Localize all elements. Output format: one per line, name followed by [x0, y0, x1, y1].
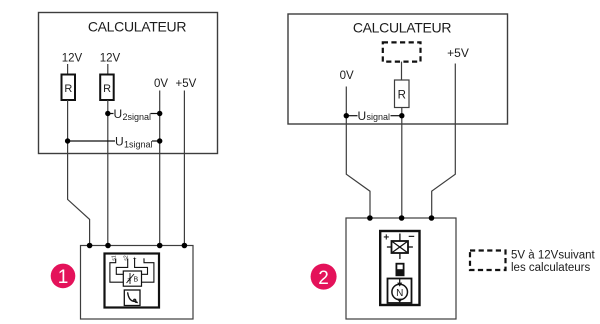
svg-text:B: B [134, 277, 139, 284]
resistor R3 [395, 80, 410, 108]
junction dot (sensor1 pin a) [87, 243, 93, 249]
wire signal down to sensor (right) [401, 108, 403, 219]
svg-text:R: R [103, 83, 111, 95]
hall sensor internal wiring (right inner staple) [135, 259, 148, 275]
svg-text:12V: 12V [62, 53, 83, 65]
magnet curve box [124, 290, 140, 306]
svg-text:+5V: +5V [176, 78, 197, 90]
pole wheel circle N [392, 284, 408, 300]
marker circle 1 [51, 264, 76, 289]
svg-text:0V: 0V [154, 78, 168, 90]
dashed supply box (inside right ECU) [383, 42, 421, 61]
svg-text:12V: 12V [100, 53, 121, 65]
node U1signal (wire, label and junction dots) [65, 134, 162, 149]
junction dot (sensor1 pin c) [157, 243, 163, 249]
svg-text:s1: s1 [112, 255, 118, 261]
svg-text:2signal: 2signal [123, 112, 152, 122]
junction dot (sensor2 pin b) [399, 215, 405, 221]
hall element box with B [123, 271, 141, 286]
resistor R2 [100, 75, 114, 101]
hall sensor internal wiring (right outer staple) [142, 259, 154, 283]
hall sensor icon frame (left) [105, 254, 160, 308]
svg-text:5V à 12Vsuivant: 5V à 12Vsuivant [511, 250, 596, 262]
svg-text:+5V: +5V [447, 46, 469, 60]
svg-text:signal: signal [367, 112, 391, 122]
svg-text:R: R [398, 90, 406, 102]
legend dashed box [470, 251, 506, 271]
svg-text:R: R [64, 83, 72, 95]
svg-text:N: N [396, 288, 403, 299]
magnet element (half filled) [396, 263, 405, 276]
node Usignal (wire, label and junction dots) [344, 109, 405, 123]
svg-text:les calculateurs: les calculateurs [511, 262, 591, 274]
wire stub above bridge [399, 234, 401, 242]
wire R1 down to sensor (with jog) [68, 100, 90, 246]
wire 0V down to sensor (left) [159, 91, 161, 246]
svg-text:U: U [114, 107, 123, 121]
wire 0V down to sensor (right, with jog) [346, 87, 370, 219]
wire stub below bridge [399, 253, 401, 259]
wire 12V to R2 [107, 64, 109, 75]
hall sensor pin labels (tiny) [112, 255, 146, 262]
junction dot (sensor2 pin c) [429, 215, 435, 221]
wire stub right of bridge [408, 246, 413, 248]
marker circle 2 [311, 264, 337, 290]
svg-text:1signal: 1signal [124, 139, 153, 149]
junction dot (sensor1 pin b) [105, 243, 111, 249]
hall sensor internal wiring (left outer staple) [110, 259, 123, 283]
svg-text:0V: 0V [340, 70, 354, 82]
calculateur box 1 (left ECU enclosure) [39, 13, 218, 154]
arrow out of pole wheel (bottom) [397, 299, 402, 303]
svg-text:2: 2 [318, 268, 329, 289]
svg-text:CALCULATEUR: CALCULATEUR [353, 20, 452, 36]
svg-text:−: − [408, 231, 414, 243]
svg-text:+: + [383, 233, 389, 244]
arrow into pole wheel (top) [397, 279, 402, 287]
svg-text:s2: s2 [124, 255, 130, 261]
svg-text:CALCULATEUR: CALCULATEUR [88, 19, 187, 35]
hall sensor internal wiring (left inner staple) [116, 259, 127, 275]
wire stub left of bridge [387, 246, 392, 248]
svg-text:U: U [358, 109, 367, 123]
sensor box 2 (right sensor enclosure) [346, 218, 456, 319]
wire dashed box to R3 [401, 62, 403, 80]
wire +5V down to sensor (left) [183, 91, 185, 246]
wire R2 down to sensor [107, 100, 109, 246]
pole wheel box [388, 279, 412, 304]
resistor R1 [62, 75, 76, 101]
svg-text:U: U [115, 134, 124, 148]
bridge element (crossed box) [392, 241, 409, 253]
active sensor icon frame (right) [380, 231, 419, 305]
svg-text:1: 1 [58, 267, 69, 288]
wire 12V to R1 [67, 64, 69, 75]
junction dot (sensor2 pin a) [367, 215, 373, 221]
calculateur box 2 (right ECU enclosure) [288, 14, 508, 124]
sensor box 1 (left sensor enclosure) [81, 246, 194, 320]
junction dot (sensor1 pin d) [182, 243, 188, 249]
node U2signal (wire, label and junction dots) [105, 107, 162, 122]
wire +5V down to sensor (right, with jog) [432, 64, 456, 219]
